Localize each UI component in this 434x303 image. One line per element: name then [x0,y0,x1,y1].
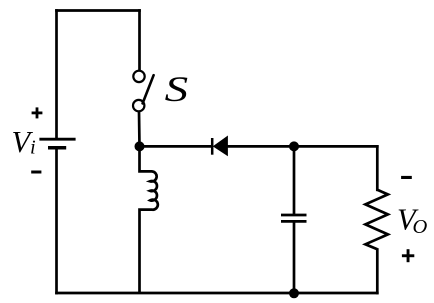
wire right vertical above resistor [376,146,379,189]
resistor (load) [365,190,388,250]
wire diode to node B [227,145,294,148]
wire switch bottom to node A [138,111,141,146]
battery Vi [39,139,75,148]
inductor L [140,146,158,293]
diode D [212,137,227,156]
capacitor C [281,215,307,221]
wire node A to diode [140,145,211,148]
wire top rail [57,9,140,12]
label - (battery) [31,171,41,174]
svg-text:O: O [413,216,428,238]
node C (bottom) [289,288,299,298]
wire left vertical lower [55,148,58,293]
wire capacitor top lead [293,146,296,213]
wire bottom rail [57,292,378,295]
wire node B to top right corner [294,145,377,148]
wire switch drop from top rail [138,11,141,71]
node B [289,141,299,151]
svg-text:S: S [165,69,189,109]
label + (Vo) [402,249,414,262]
wire left vertical upper [55,11,58,139]
wire right vertical below resistor [376,250,379,294]
node A [135,141,145,151]
svg-text:i: i [30,137,36,159]
label + (battery) [32,107,43,118]
wire capacitor bottom lead [293,223,296,293]
label - (Vo) [401,176,412,179]
switch S [133,71,154,112]
